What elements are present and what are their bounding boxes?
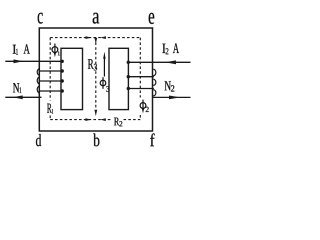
node b <box>93 134 99 147</box>
coil N2 bumps on right limb <box>153 69 156 96</box>
left core window <box>61 48 83 109</box>
flux symbol phi1 <box>52 44 58 53</box>
wire winding2 turn2 <box>129 76 154 78</box>
label N1 <box>13 83 21 93</box>
wire winding2 turn3 <box>129 88 154 90</box>
subscript 3 of phi3 <box>106 86 109 92</box>
arrow N1 <box>13 95 23 99</box>
wire winding1 turn2 <box>39 70 62 72</box>
flux symbol phi3 <box>100 77 106 89</box>
flux path bottom dashed line <box>50 119 140 121</box>
flux path center dashed line <box>95 38 97 110</box>
label R3 <box>88 59 97 70</box>
node e <box>149 13 155 24</box>
label N2 <box>165 81 175 91</box>
label I2 A <box>162 43 179 54</box>
flux arrow top-right toward center <box>100 36 106 39</box>
flux path top dashed line <box>50 37 140 39</box>
node dot winding1 turn1 <box>61 60 64 63</box>
node a <box>93 13 99 24</box>
node dot winding2 turn1 <box>127 61 130 64</box>
node dot winding1 turn3 <box>61 79 64 82</box>
wire I1 input line <box>5 60 61 62</box>
wire winding1 turn4 <box>39 90 62 92</box>
node dot winding1 turn2 <box>61 69 64 72</box>
arrow I2 current <box>165 60 176 64</box>
wire I2 line <box>129 61 191 63</box>
coil N1 bumps on left limb <box>37 69 40 93</box>
subscript 1 of phi1 <box>58 52 60 56</box>
arrow N2 <box>169 96 180 100</box>
flux arrow center-bottom downward <box>94 110 97 116</box>
node dot winding2 turn2 <box>127 75 130 78</box>
flux arrow top-left toward center <box>86 36 92 39</box>
right core window <box>109 48 128 109</box>
node c <box>38 13 43 24</box>
flux path left dashed line <box>49 38 51 120</box>
subscript 2 of phi2 <box>146 107 149 112</box>
flux arrow center-top downward <box>94 38 97 44</box>
wire N1 output line <box>5 96 41 98</box>
node dot winding1 turn4 <box>61 89 64 92</box>
wire winding1 turn3 <box>39 80 62 82</box>
arrow phi3 direction up <box>103 58 105 77</box>
label R1 <box>47 104 53 114</box>
flux arrow bottom-right toward center <box>100 118 106 121</box>
node d <box>36 134 41 146</box>
node f <box>150 133 154 146</box>
label I1 A <box>13 44 30 54</box>
wire N2 output line <box>152 96 190 98</box>
node dot winding2 turn3 <box>127 87 130 90</box>
flux symbol phi2 <box>140 100 146 109</box>
label R2 <box>114 118 122 127</box>
core outer rectangle c-e-f-d <box>39 28 152 131</box>
flux path right dashed line <box>139 38 141 120</box>
flux arrow bottom-left toward center <box>85 118 91 121</box>
arrow I1 current <box>14 59 24 63</box>
